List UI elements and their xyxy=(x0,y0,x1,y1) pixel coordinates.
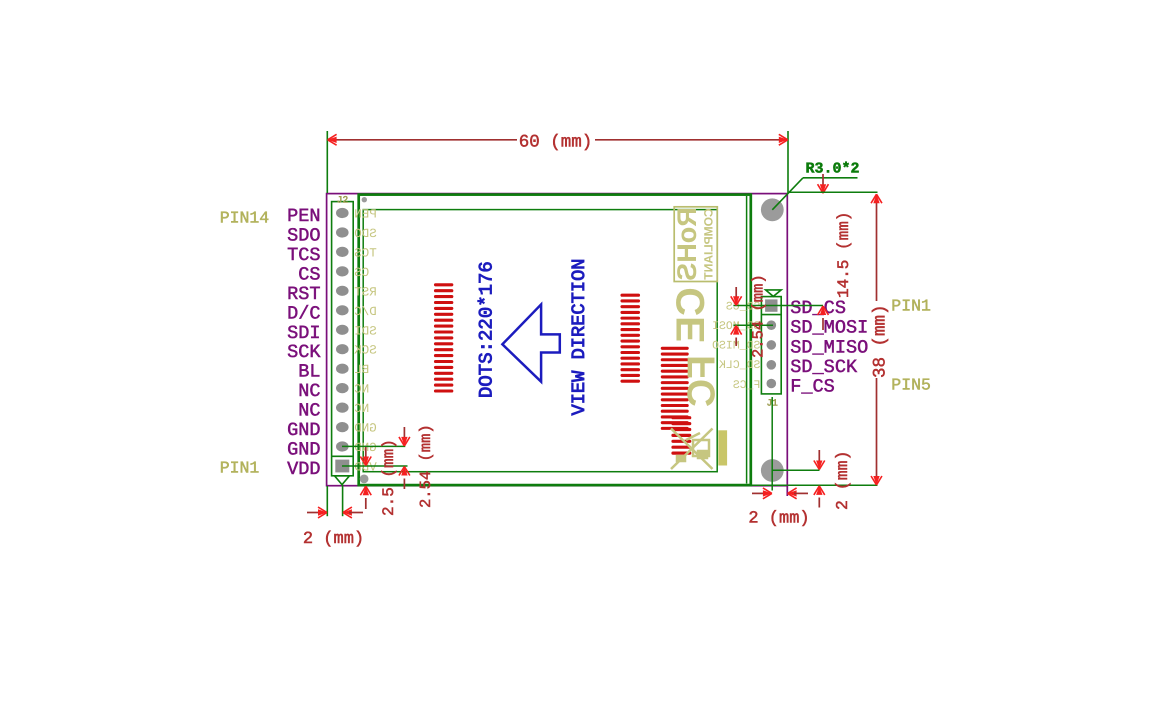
svg-text:SD_MOSI: SD_MOSI xyxy=(790,318,868,339)
14.5mm dim text xyxy=(835,212,853,298)
red dash column right lower (FPC fingers) xyxy=(673,418,690,453)
svg-text:BL: BL xyxy=(354,363,369,377)
svg-text:VIEW DIRECTION: VIEW DIRECTION xyxy=(568,258,590,415)
connector J2 pad 1 (square VDD) xyxy=(335,460,349,473)
2mm BR vertical top arrow xyxy=(814,450,825,470)
2.5mm top arrow xyxy=(360,447,371,466)
2.5mm bottom arrow xyxy=(360,486,371,509)
red dash column middle xyxy=(622,295,639,381)
VDD pad extension line xyxy=(342,465,408,467)
J2 mirrored silkscreen pin names xyxy=(354,208,377,475)
R3.0*2 leader xyxy=(772,178,857,210)
2mm BR vertical dim text xyxy=(833,451,852,510)
display active area outline xyxy=(363,210,717,472)
svg-text:TCS: TCS xyxy=(354,246,377,260)
J1 pitch extension line 2 xyxy=(733,324,773,326)
38mm bottom extension line xyxy=(752,484,878,486)
2mm BR horizontal dim text xyxy=(748,510,809,529)
R3.0*2 arrow xyxy=(818,174,829,193)
svg-text:2.5 (mm): 2.5 (mm) xyxy=(380,439,398,516)
60mm dimension line xyxy=(328,134,788,145)
2mm BR horizontal arrows xyxy=(752,488,808,499)
view direction arrow xyxy=(502,304,559,381)
J2 pin name labels xyxy=(287,206,321,480)
GND pad extension line xyxy=(342,445,405,447)
svg-text:FC: FC xyxy=(681,355,724,407)
refdes J1 xyxy=(766,398,778,409)
svg-text:CS: CS xyxy=(298,264,320,285)
14.5mm extension line (SD_CS row) xyxy=(733,305,823,307)
svg-text:PIN14: PIN14 xyxy=(220,209,270,228)
2mm left extension lines xyxy=(327,485,342,516)
38mm top extension line xyxy=(788,191,878,193)
mounting hole top xyxy=(761,198,784,221)
14.5mm bottom arrow xyxy=(818,306,829,330)
fiducial dot bottom xyxy=(360,475,369,484)
svg-text:F_CS: F_CS xyxy=(733,379,761,392)
CE mark (mirrored) xyxy=(669,287,713,343)
connector J2 pin1 box divider xyxy=(332,455,354,457)
WEEE crossed-out bin symbol xyxy=(671,429,713,470)
text VIEW DIRECTION xyxy=(568,258,590,415)
svg-text:SDO: SDO xyxy=(287,225,320,246)
label PIN1 right xyxy=(891,297,931,316)
svg-text:PEN: PEN xyxy=(287,206,320,227)
60mm dim text xyxy=(519,132,593,152)
svg-text:SD_SCK: SD_SCK xyxy=(790,357,858,378)
svg-text:VDD: VDD xyxy=(287,459,320,480)
TFT glass outline (thick green) xyxy=(359,195,751,486)
svg-text:2 (mm): 2 (mm) xyxy=(833,451,852,510)
svg-text:14.5 (mm): 14.5 (mm) xyxy=(835,212,853,298)
svg-text:PEN: PEN xyxy=(354,208,377,222)
svg-text:SD_CLK: SD_CLK xyxy=(719,359,761,372)
label PIN1 left xyxy=(220,459,260,478)
svg-text:D/C: D/C xyxy=(287,303,320,324)
connector J2 pads 14..2 xyxy=(336,208,349,452)
2.54mm left dim text xyxy=(417,424,435,508)
60mm dim extension line right xyxy=(787,131,789,194)
60mm dim extension line left xyxy=(326,131,328,193)
2mm left arrows xyxy=(307,507,363,518)
red dash column right upper (FPC fingers) xyxy=(662,348,687,428)
svg-text:SDI: SDI xyxy=(287,323,320,344)
PCB board outline (purple) xyxy=(327,194,788,486)
svg-text:J2: J2 xyxy=(337,194,349,205)
svg-text:RST: RST xyxy=(354,285,377,299)
svg-text:TCS: TCS xyxy=(287,245,320,266)
2.54mm left top arrow xyxy=(399,427,410,446)
FCC mark (mirrored) xyxy=(681,355,724,407)
svg-text:SCK: SCK xyxy=(354,344,377,358)
svg-text:COMPLIANT: COMPLIANT xyxy=(702,208,716,280)
svg-text:PIN1: PIN1 xyxy=(891,297,931,316)
connector J1 pin1 triangle marker xyxy=(766,290,782,297)
J1 pin labels (purple) xyxy=(790,298,868,398)
svg-text:RoHS: RoHS xyxy=(672,207,702,281)
svg-text:SCK: SCK xyxy=(287,342,321,363)
svg-text:NC: NC xyxy=(298,401,320,422)
svg-text:CS: CS xyxy=(354,266,369,280)
mounting hole bottom xyxy=(761,459,784,482)
J1 mirrored silkscreen pin names xyxy=(712,300,760,391)
fiducial dot top xyxy=(362,197,367,202)
svg-text:SDI: SDI xyxy=(354,324,377,338)
svg-text:2.54 (mm): 2.54 (mm) xyxy=(417,424,435,508)
svg-text:D/C: D/C xyxy=(354,305,377,319)
text DOTS:220*176 xyxy=(476,261,498,398)
svg-text:PIN1: PIN1 xyxy=(220,459,260,478)
38mm dim text xyxy=(871,304,891,378)
label PIN14 xyxy=(220,209,270,228)
svg-text:GND: GND xyxy=(287,440,320,461)
connector J2 outline xyxy=(332,202,354,476)
svg-text:2 (mm): 2 (mm) xyxy=(303,530,364,549)
2.54mm left bottom arrow xyxy=(399,467,410,490)
svg-text:F_CS: F_CS xyxy=(790,377,835,398)
svg-text:PIN5: PIN5 xyxy=(891,376,931,395)
connector J1 pad 1 (square) xyxy=(765,299,777,311)
2mm left dim text xyxy=(303,530,364,549)
refdes J2 xyxy=(337,194,349,205)
svg-text:DOTS:220*176: DOTS:220*176 xyxy=(476,261,498,398)
connector J1 outline xyxy=(761,297,781,394)
svg-text:NC: NC xyxy=(354,402,369,416)
red dash column left xyxy=(436,285,452,391)
hole center horizontal line xyxy=(772,469,819,471)
silkscreen block xyxy=(718,430,727,465)
svg-text:R3.0*2: R3.0*2 xyxy=(805,161,859,178)
connector J2 pin1 triangle marker xyxy=(335,476,350,485)
svg-text:NC: NC xyxy=(354,383,369,397)
svg-text:CE: CE xyxy=(669,287,713,343)
J1 pitch bottom arrow xyxy=(731,326,742,346)
38mm dimension line xyxy=(871,194,882,485)
board edge extension (purple) xyxy=(786,486,788,496)
2mm BR vertical bottom arrow xyxy=(814,486,825,508)
2.5mm dim text xyxy=(380,439,398,516)
svg-text:SD_MISO: SD_MISO xyxy=(790,337,868,358)
svg-text:2.54 (mm): 2.54 (mm) xyxy=(750,274,768,358)
svg-text:2 (mm): 2 (mm) xyxy=(748,510,809,529)
J1 pitch dim text xyxy=(750,274,768,358)
svg-text:NC: NC xyxy=(298,381,320,402)
svg-text:60 (mm): 60 (mm) xyxy=(519,132,593,152)
J1 pitch top arrow xyxy=(731,287,742,305)
connector J1 pin1 box divider xyxy=(761,314,781,316)
label PIN5 right xyxy=(891,376,931,395)
glass inner edge line (right) xyxy=(746,196,748,484)
svg-text:GND: GND xyxy=(354,422,377,436)
svg-text:BL: BL xyxy=(298,362,320,383)
hole center vertical line xyxy=(771,397,773,491)
R3.0*2 text xyxy=(805,161,859,178)
RoHS compliant box xyxy=(672,207,717,282)
svg-text:RST: RST xyxy=(287,284,320,305)
svg-text:SDO: SDO xyxy=(354,227,377,241)
svg-text:38 (mm): 38 (mm) xyxy=(871,304,891,378)
connector J1 pads 2..5 xyxy=(767,320,777,388)
svg-text:GND: GND xyxy=(287,420,320,441)
svg-text:SD_CS: SD_CS xyxy=(790,298,846,319)
